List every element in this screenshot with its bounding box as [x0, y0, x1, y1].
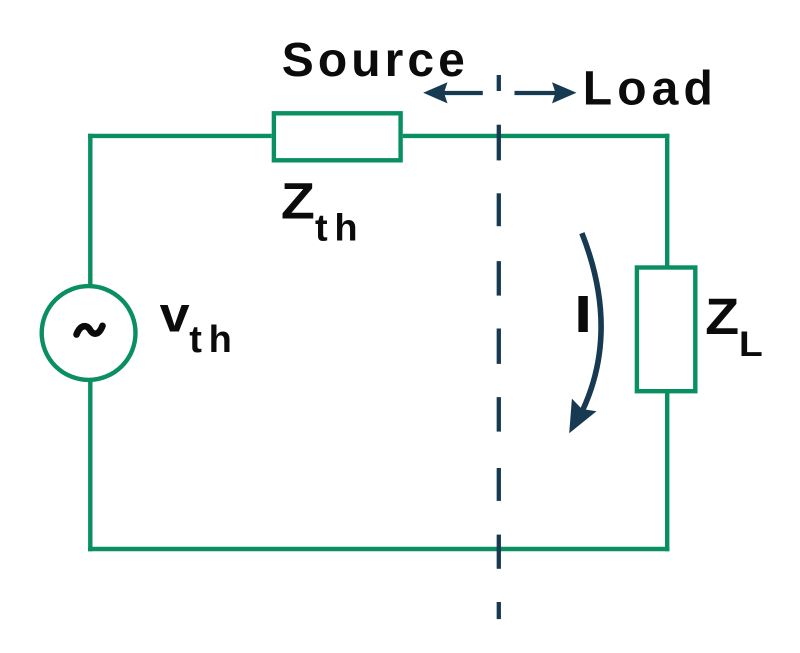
load impedance ZL box [637, 268, 695, 392]
svg-text:L: L [739, 325, 763, 364]
wire right vertical upper [665, 134, 669, 268]
resistor Zth box [274, 113, 401, 160]
wire right vertical lower [665, 391, 669, 551]
svg-text:Z: Z [705, 288, 739, 345]
wire bottom horizontal [88, 547, 669, 551]
svg-text:th: th [315, 207, 358, 249]
arrow toward source [423, 82, 483, 103]
svg-text:th: th [189, 319, 232, 361]
arrow toward load [515, 82, 577, 103]
current I curved arrow [582, 233, 601, 410]
svg-text:Source: Source [282, 34, 465, 87]
wire top-right horizontal [403, 134, 670, 138]
wire left vertical upper [88, 134, 92, 287]
wire top-left horizontal [88, 134, 272, 138]
current arrowhead [569, 399, 596, 434]
svg-text:v: v [160, 287, 190, 343]
wire left vertical lower [88, 379, 92, 551]
AC source V1 circle [42, 286, 136, 380]
boundary dashed line [497, 75, 501, 619]
AC source sine tilde [77, 326, 103, 335]
svg-text:Z: Z [281, 172, 315, 229]
label I [578, 296, 587, 332]
